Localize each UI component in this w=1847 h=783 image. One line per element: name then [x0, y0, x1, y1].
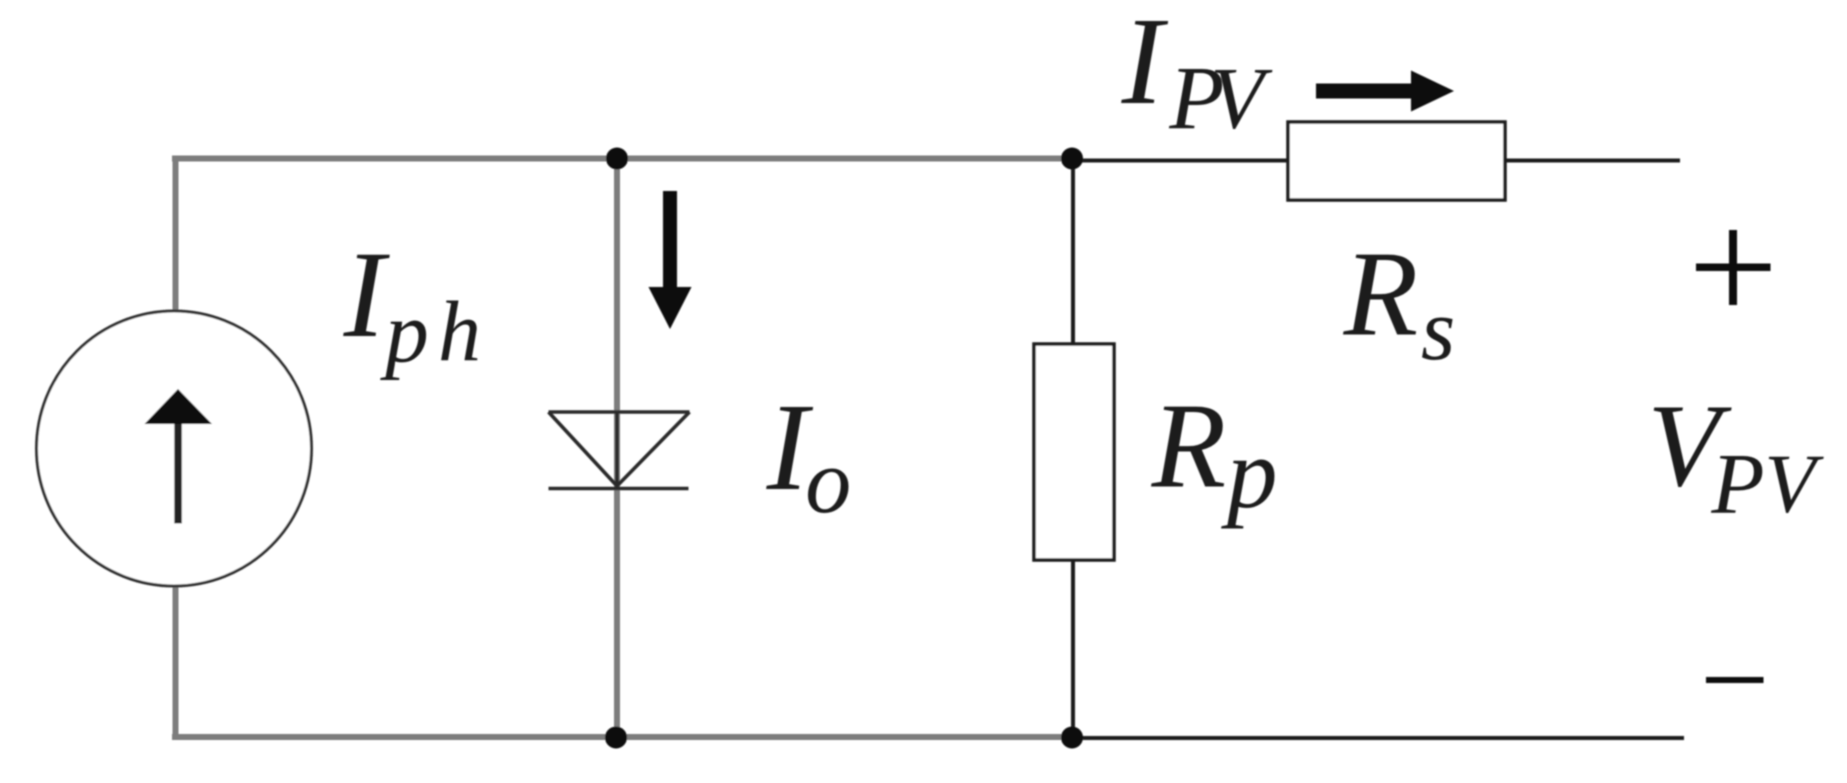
- svg-text:s: s: [1421, 282, 1455, 379]
- svg-text:p: p: [1221, 417, 1278, 529]
- svg-text:p: p: [379, 284, 429, 381]
- svg-text:R: R: [1343, 226, 1419, 361]
- svg-text:I: I: [1121, 0, 1169, 131]
- svg-text:I: I: [343, 226, 391, 363]
- svg-text:o: o: [805, 430, 851, 532]
- svg-text:R: R: [1151, 378, 1227, 513]
- svg-text:V: V: [1764, 438, 1824, 531]
- svg-text:P: P: [1710, 435, 1764, 532]
- svg-text:V: V: [1210, 51, 1273, 148]
- svg-text:h: h: [438, 283, 481, 379]
